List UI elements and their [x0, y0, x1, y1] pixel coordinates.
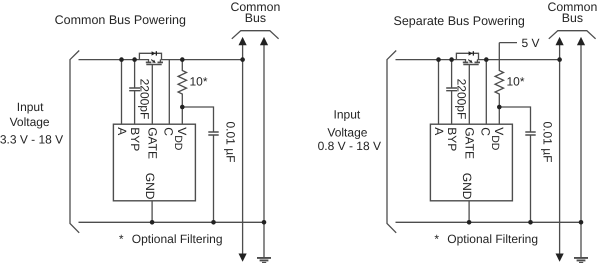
junction: GND pin / bottom rail: [150, 220, 155, 225]
resistor R1 10 ohm: [178, 60, 186, 107]
junction: rail / bus power: [557, 57, 562, 62]
wire: top rail left segment: [79, 60, 149, 63]
transistor Q2 source contact: [463, 61, 469, 63]
arrowhead: bus power up: [556, 37, 564, 45]
transistor Q1 pass FET body-diode loop: [139, 53, 161, 59]
wire: pin C riser: [485, 60, 487, 125]
svg-text:A: A: [115, 127, 129, 135]
svg-text:0.01 µF: 0.01 µF: [224, 122, 238, 163]
svg-text:BYP: BYP: [128, 127, 142, 151]
svg-text:*: *: [434, 232, 439, 246]
ground GND1: [257, 258, 271, 263]
junction: C4 / bottom rail: [528, 220, 533, 225]
svg-text:10*: 10*: [190, 75, 208, 89]
wire: GND pin drop: [468, 201, 470, 223]
wire: VDD node to bypass cap: [182, 107, 213, 222]
junction: R1 bottom / VDD node: [180, 105, 185, 110]
svg-text:Input: Input: [334, 108, 361, 122]
wire: top rail left segment: [396, 60, 466, 63]
junction: rail / R1 top: [180, 57, 185, 62]
svg-text:Bus: Bus: [562, 11, 583, 25]
diode D2 body diode arrow: [469, 51, 473, 55]
svg-text:GATE: GATE: [145, 127, 159, 159]
wire: pin BYP riser: [134, 60, 136, 125]
wire: pin BYP riser: [451, 60, 453, 125]
capacitor C2 0.01uF plates: [208, 132, 218, 135]
svg-text:2200pF: 2200pF: [138, 79, 152, 120]
node VIN right: input port polyline with break marks: [387, 51, 396, 233]
transistor Q2 drain contact: [475, 61, 481, 63]
svg-text:Input: Input: [17, 100, 44, 114]
transistor Q1 source contact: [146, 61, 152, 63]
svg-text:Common Bus Powering: Common Bus Powering: [55, 13, 186, 27]
wire: top rail right segment: [160, 60, 242, 63]
resistor R2 10 ohm fed from 5V: [495, 43, 503, 107]
svg-text:Bus: Bus: [245, 11, 266, 25]
diode D2 cathode bar: [473, 51, 474, 55]
wire: VDD node to bypass cap: [499, 107, 530, 222]
arrowhead: bus power down continuation: [239, 254, 247, 262]
wire: 5V feed: [499, 42, 517, 44]
svg-text:GND: GND: [143, 173, 157, 200]
wire: top rail right segment: [477, 60, 559, 63]
transistor Q2 pass FET body-diode loop: [456, 53, 478, 59]
node VIN left: input port polyline with break marks: [70, 51, 79, 233]
svg-text:Separate Bus Powering: Separate Bus Powering: [394, 14, 525, 28]
svg-text:GND: GND: [460, 173, 474, 200]
svg-text:0.8 V - 18 V: 0.8 V - 18 V: [318, 139, 381, 153]
diode D1 cathode bar: [156, 51, 157, 55]
node: common bus bracket: [232, 31, 279, 39]
junction: bottom rail / bus return: [262, 220, 267, 225]
junction: C2 / bottom rail: [211, 220, 216, 225]
svg-text:3.3 V - 18 V: 3.3 V - 18 V: [0, 132, 63, 146]
wire: pin A riser: [121, 60, 123, 125]
svg-text:10*: 10*: [507, 75, 525, 89]
junction: rail / pin A: [436, 57, 441, 62]
svg-text:Optional Filtering: Optional Filtering: [447, 232, 538, 246]
junction: GND pin / bottom rail: [467, 220, 472, 225]
op-amp U1 controller IC box: [113, 124, 195, 201]
transistor Q1 drain contact: [158, 61, 164, 63]
transistor Q2 channel line: [463, 64, 478, 66]
wire: VDD pin stub: [181, 107, 183, 124]
wire: gate line to GATE pin: [151, 65, 153, 125]
junction: R2 bottom / VDD node: [497, 105, 502, 110]
wire: bottom return rail: [396, 221, 582, 223]
diode D1 body diode arrow: [152, 51, 156, 55]
arrowhead: bus power up: [239, 37, 247, 45]
junction: rail / BYP: [132, 57, 137, 62]
junction: bottom rail / bus return: [579, 220, 584, 225]
svg-text:Voltage: Voltage: [10, 115, 50, 129]
svg-text:Optional Filtering: Optional Filtering: [132, 232, 223, 246]
svg-text:5 V: 5 V: [522, 36, 540, 50]
wire: GND pin drop: [151, 201, 153, 223]
svg-text:*: *: [119, 232, 124, 246]
wire: common bus return line: [263, 44, 265, 258]
arrowhead: bus power down continuation: [556, 254, 564, 262]
wire: common bus power line: [559, 44, 561, 256]
transistor Q2 body arrow: [469, 60, 473, 63]
transistor Q1 body arrow: [152, 60, 156, 63]
svg-text:0.01 µF: 0.01 µF: [541, 122, 555, 163]
capacitor C3 2200pF plates: [446, 88, 457, 91]
node: common bus bracket: [549, 31, 596, 39]
wire: pin A riser: [438, 60, 440, 125]
junction: rail / BYP: [449, 57, 454, 62]
svg-text:GATE: GATE: [462, 127, 476, 159]
junction: rail / pin A: [119, 57, 124, 62]
capacitor C1 2200pF plates: [129, 88, 140, 91]
wire: pin C riser: [168, 60, 170, 125]
junction: rail / bus power: [240, 57, 245, 62]
wire: VDD pin stub: [498, 107, 500, 124]
transistor Q1 channel line: [146, 64, 161, 66]
arrowhead: bus return up: [260, 37, 268, 45]
arrowhead: bus return up: [577, 37, 585, 45]
svg-text:Voltage: Voltage: [327, 125, 367, 139]
wire: common bus return line: [580, 44, 582, 258]
svg-text:A: A: [432, 127, 446, 135]
op-amp U2 controller IC box: [430, 124, 512, 201]
wire: bottom return rail: [79, 221, 265, 223]
capacitor C4 0.01uF plates: [525, 132, 535, 135]
svg-text:BYP: BYP: [445, 127, 459, 151]
wire: common bus power line: [242, 44, 244, 256]
ground GND2: [574, 258, 588, 263]
wire: gate line to GATE pin: [468, 65, 470, 125]
svg-text:2200pF: 2200pF: [455, 79, 469, 120]
junction: rail / pin C riser: [484, 57, 489, 62]
